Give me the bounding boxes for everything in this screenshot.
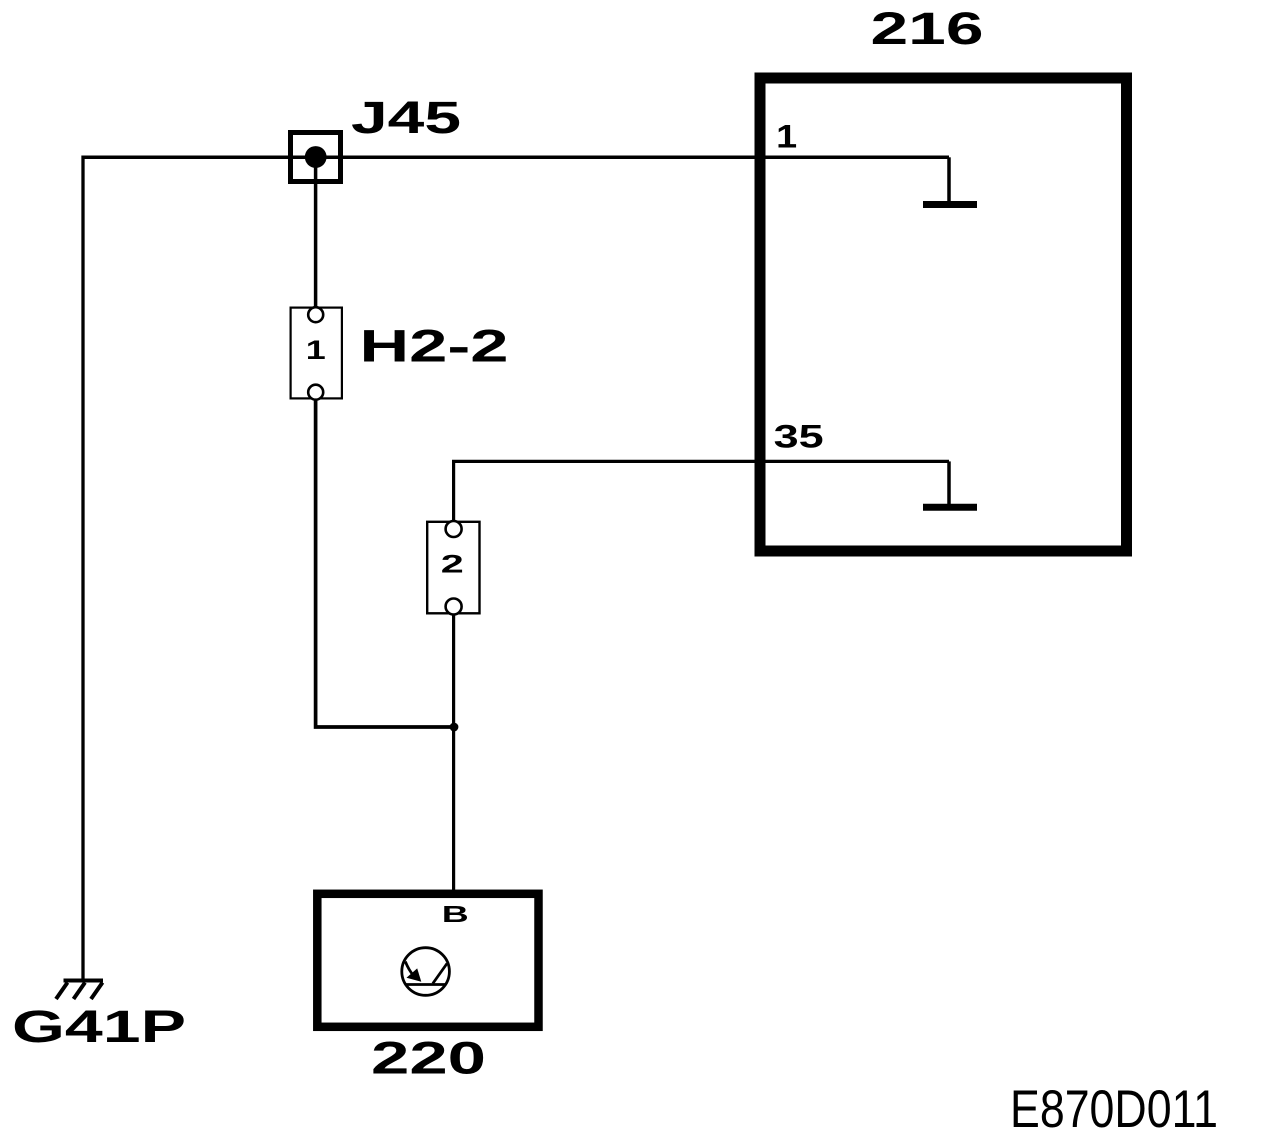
- wire: J45 down to H2-2 pin: [314, 157, 318, 308]
- connector H2-2 body: [291, 308, 342, 399]
- svg-text:1: 1: [776, 119, 797, 155]
- svg-text:1: 1: [306, 335, 326, 365]
- internal ground bar (pin 1): [923, 201, 977, 208]
- pump arrow head: [407, 968, 422, 981]
- svg-text:J45: J45: [351, 92, 461, 143]
- wire: H2-2 down then right to junction: [316, 400, 454, 727]
- svg-text:B: B: [442, 901, 469, 927]
- internal ground bar (pin 35): [923, 504, 977, 511]
- connector H2-2 bottom pin circle: [308, 385, 323, 400]
- wire: pin 35 horizontal to corner then down to connector 2: [454, 461, 949, 521]
- svg-text:E870D011: E870D011: [1010, 1080, 1218, 1139]
- svg-text:35: 35: [774, 418, 824, 454]
- junction J45 dot: [305, 146, 327, 168]
- pump motor symbol: [402, 948, 450, 996]
- ECU box 216: [760, 78, 1127, 551]
- connector 2 body: [427, 522, 479, 614]
- junction J45 box: [291, 133, 341, 182]
- connector H2-2 top pin circle: [308, 307, 323, 322]
- wire: main horizontal from left riser through J45 to ECU pin 1 corner: [82, 156, 950, 160]
- connector 2 top pin circle: [446, 521, 462, 537]
- svg-text:2: 2: [441, 551, 464, 579]
- svg-text:G41P: G41P: [12, 1001, 186, 1052]
- wire: pin 35 internal drop to ground: [947, 461, 951, 504]
- connector 2 bottom pin circle: [446, 599, 462, 615]
- wire: pin 1 internal drop to ground: [947, 157, 951, 202]
- ground G41P symbol: [56, 981, 103, 1000]
- svg-text:H2-2: H2-2: [360, 321, 509, 372]
- pump box 220: [317, 894, 538, 1027]
- junction dot node: [450, 723, 459, 732]
- wire: left vertical riser down to ground G41P: [81, 156, 84, 982]
- svg-text:220: 220: [371, 1033, 486, 1084]
- wire: connector 2 down through junction to pump 220: [452, 614, 455, 890]
- svg-text:216: 216: [871, 3, 984, 54]
